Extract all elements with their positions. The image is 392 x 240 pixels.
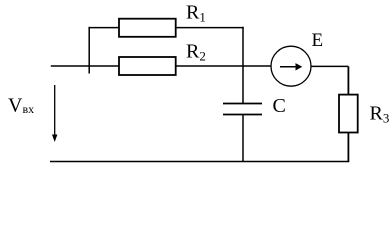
wire: input horizontal left segment	[51, 65, 119, 67]
arrow: input voltage direction	[52, 85, 57, 142]
resistor R1	[119, 19, 176, 37]
resistor R3	[339, 95, 358, 133]
svg-text:Vвх: Vвх	[8, 95, 34, 117]
resistor R2	[119, 57, 176, 75]
svg-text:R3: R3	[370, 103, 390, 126]
wire: right vertical down to R3	[347, 66, 349, 94]
wire: left branch vertical at junction	[88, 27, 90, 74]
svg-text:C: C	[273, 95, 286, 117]
wire: R3 bottom lead	[347, 133, 349, 163]
svg-text:R1: R1	[186, 2, 206, 25]
wire: bottom return	[50, 161, 349, 163]
wire: R1 left lead	[89, 27, 119, 29]
wire: R2 right lead to source E	[176, 65, 272, 67]
svg-text:E: E	[312, 30, 324, 51]
source E	[271, 46, 311, 86]
wire: R1 right lead	[176, 27, 244, 29]
wire: capacitor bottom lead	[242, 115, 244, 163]
svg-text:R2: R2	[186, 41, 206, 64]
capacitor C	[223, 104, 262, 115]
wire: source E right lead	[311, 65, 348, 67]
wire: middle vertical from R1 branch down to capacitor	[242, 27, 244, 103]
